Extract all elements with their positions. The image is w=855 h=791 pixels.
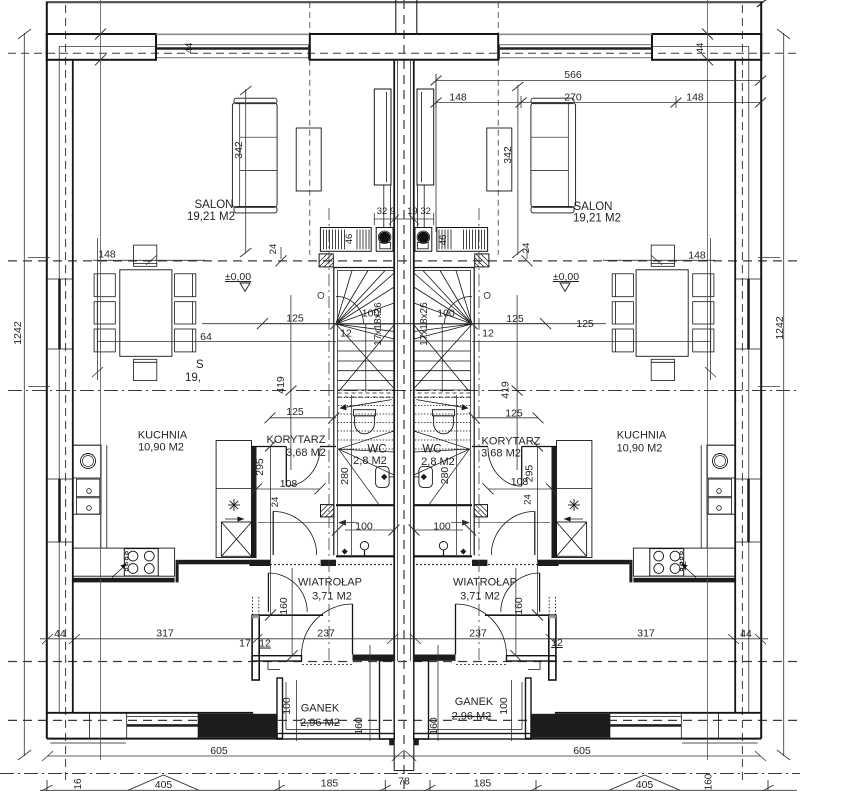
svg-text:160: 160 [353,717,365,735]
svg-text:10,90 M2: 10,90 M2 [138,442,184,454]
svg-text:2,8 M2: 2,8 M2 [353,455,387,467]
svg-text:100: 100 [355,521,373,533]
svg-text:WIATROŁAP: WIATROŁAP [453,577,517,589]
wiatrolap south wall left piece + step [252,656,301,661]
svg-text:125: 125 [286,406,304,418]
wiatrolap south wall right piece [353,655,395,661]
section axis dash-dot mid [8,390,797,392]
svg-text:2,96 M2: 2,96 M2 [300,717,340,729]
dimension: 605 [42,751,404,761]
left wall brick line [58,46,60,279]
svg-text:S: S [196,359,204,371]
24 leader near eaves [280,247,282,259]
hatched pier top [319,254,333,267]
dimension: 125/64 lines [98,295,547,470]
dimension: 295 [270,446,272,615]
wall axis vertical left [65,5,67,784]
svg-text:566: 566 [564,69,582,81]
svg-text:24: 24 [270,497,281,508]
svg-text:12: 12 [678,561,688,571]
svg-text:3,68 M2: 3,68 M2 [481,448,521,460]
party wall center [240,0,524,771]
svg-text:KUCHNIA: KUCHNIA [138,430,188,442]
top wall pier left (corner) [47,34,156,60]
corridor north wall thin [252,446,287,448]
svg-text:125: 125 [286,313,304,325]
svg-text:280: 280 [439,467,451,485]
svg-text:17: 17 [239,638,251,650]
WC south wall [336,504,394,506]
32/9 dim line [374,213,404,225]
washing machine X [221,522,251,556]
radiator [320,228,371,252]
svg-text:12: 12 [482,328,494,340]
bottom dimension decorations [40,775,797,791]
svg-text:19,21 M2: 19,21 M2 [187,211,235,223]
svg-text:148: 148 [98,249,116,261]
left wall window 1 [47,279,73,349]
svg-text:148: 148 [449,92,467,104]
svg-text:44: 44 [184,43,195,54]
svg-text:WC: WC [367,444,386,456]
svg-text:17x18x26: 17x18x26 [419,302,430,346]
chair top [134,245,157,266]
svg-text:160: 160 [428,717,440,735]
kitchen counter bottom row [73,548,175,576]
svg-text:108: 108 [511,476,529,488]
svg-text:419: 419 [500,381,512,399]
kitchen sink [73,445,101,478]
svg-text:KUCHNIA: KUCHNIA [617,430,667,442]
svg-text:±0,00: ±0,00 [553,271,579,283]
svg-text:185: 185 [321,778,339,790]
svg-text:125: 125 [506,313,524,325]
dimension: bottom chain 44/317/237 [40,634,404,644]
porch inner step lines [285,682,287,730]
svg-text:342: 342 [233,141,245,159]
svg-text:3,71 M2: 3,71 M2 [460,591,500,603]
svg-text:GANEK: GANEK [301,703,340,715]
flue block [376,228,393,252]
door corridor-wiatrolap [272,511,274,555]
svg-text:148: 148 [688,250,706,262]
dimension: 108 [257,488,321,490]
svg-text:3,71 M2: 3,71 M2 [312,591,352,603]
salon-wiatrolap wall [252,615,259,680]
verticals at segment bounds [46,780,48,791]
svg-text:160: 160 [513,597,525,615]
svg-text:237: 237 [317,628,335,640]
svg-text:605: 605 [210,745,228,757]
svg-text:17x18x26: 17x18x26 [373,302,384,346]
svg-text:100: 100 [433,521,451,533]
left wall window 2 [47,479,73,542]
svg-text:2,96 M2: 2,96 M2 [452,711,492,723]
ticks on bottom line [42,785,53,791]
porch center block [380,661,395,739]
svg-text:405: 405 [636,779,654,791]
hatched pier mid [321,505,335,517]
svg-text:237: 237 [469,628,487,640]
toilet [353,410,375,434]
porch threshold dotted [302,664,352,666]
kitchen drawers [76,479,99,497]
wall axis vertical right [741,5,743,784]
stove [124,549,158,576]
chimney above roof [395,0,397,34]
svg-text:125: 125 [576,318,594,330]
top dimension lines (right unit only) [435,74,437,232]
top window sill line thin [156,33,308,35]
svg-text:108: 108 [280,478,298,490]
fridge snowflake [228,499,240,511]
window sill line bottom-left [50,742,126,744]
svg-text:419: 419 [275,376,287,394]
drawing crop line top [46,1,763,3]
svg-text:405: 405 [155,779,173,791]
svg-text:16: 16 [73,778,84,790]
dimension: dining 148 [92,238,205,380]
svg-text:270: 270 [564,92,582,104]
dash-dot axis through stairs [328,208,330,663]
svg-text:24: 24 [521,243,532,254]
svg-text:44: 44 [695,43,706,54]
svg-text:±0,00: ±0,00 [225,271,251,283]
left wall outer face [46,2,48,739]
svg-text:100: 100 [437,308,455,320]
svg-text:160: 160 [278,597,290,615]
kitchen south wall [73,578,175,583]
stair winder fan [336,271,394,391]
shaft next to party wall [374,89,391,185]
bottom wall outer face [47,738,283,740]
hall fixtures [360,542,368,550]
svg-text:KORYTARZ: KORYTARZ [482,436,541,448]
stair block left wall [333,267,335,555]
svg-text:1242: 1242 [774,316,786,340]
chairs right column [175,274,196,352]
svg-text:3,68 M2: 3,68 M2 [286,447,326,459]
svg-text:44: 44 [54,628,66,640]
svg-text:12: 12 [259,638,271,650]
WC room steps dotted top [338,398,395,450]
svg-text:12: 12 [340,328,352,340]
svg-text:1242: 1242 [12,321,24,345]
dimension: 100 hall [345,529,394,531]
door kitchen-wiatrolap inner [267,573,269,612]
kitchen counter left column [73,445,101,514]
svg-text:185: 185 [474,778,492,790]
svg-text:32 9: 32 9 [377,206,396,217]
svg-text:125: 125 [505,408,523,420]
chairs left column [94,274,115,352]
porch bottom wall [277,734,394,740]
stair top wall [334,267,394,269]
stair straight steps [338,341,395,390]
bottom terrain dash-dot [0,773,800,775]
svg-text:KORYTARZ: KORYTARZ [267,434,326,446]
svg-text:605: 605 [573,745,591,757]
svg-text:342: 342 [502,146,514,164]
svg-text:19 32: 19 32 [407,206,431,217]
svg-text:WC: WC [422,444,441,456]
sofa [232,98,277,213]
upper storey outline dashed [8,260,797,262]
top wall pier center [310,34,405,60]
axis line A vertical [100,0,102,760]
svg-text:160: 160 [704,773,715,790]
party wall footing below porch [393,739,395,771]
top window [156,45,308,60]
bottom wall solid segment [198,714,277,738]
dimension: porch 160 [369,645,371,741]
svg-text:SALON: SALON [574,201,613,213]
dimension: 1242 left [18,29,50,760]
WC block south wall [336,555,394,557]
svg-text:78: 78 [398,776,410,788]
stair walk line arrow [340,400,392,409]
corridor line [258,521,334,523]
sofa dim lines [245,89,247,254]
bottom wall pier divisions [89,713,91,739]
porch left wall [277,678,283,739]
dining table [120,270,172,357]
door kitchen-corridor [285,447,287,487]
dimension: 280 WC [351,395,353,555]
svg-text:24: 24 [268,244,279,255]
svg-text:148: 148 [686,92,704,104]
dimension: 160 wiatrolap [291,568,293,656]
svg-text:10,90 M2: 10,90 M2 [617,443,663,455]
svg-text:19,21 M2: 19,21 M2 [573,213,621,225]
svg-text:12: 12 [551,637,563,649]
dashed pier projection [309,60,311,255]
svg-text:100: 100 [281,697,293,715]
chair bottom [134,359,157,380]
eaves dashed lower 2 [8,719,797,721]
svg-text:19,: 19, [185,372,201,384]
kitchen east wall [252,446,257,558]
party wall axis [403,0,405,791]
coffee table [296,128,321,191]
svg-text:WIATROŁAP: WIATROŁAP [298,577,362,589]
svg-text:100: 100 [498,697,510,715]
left wall inner face [72,60,74,713]
break marks under 405 labels [128,775,199,790]
svg-text:GANEK: GANEK [455,696,494,708]
stair cut dashed [338,392,395,394]
svg-text:295: 295 [254,458,266,476]
washbasin [376,466,390,487]
svg-text:46: 46 [344,234,355,245]
under-stairs slope lines [339,431,395,506]
eaves dashed lower 1 [8,661,797,663]
bottom wall inner face [47,712,253,714]
svg-text:317: 317 [637,628,655,640]
svg-text:SALON: SALON [195,199,234,211]
wall axis horizontal top [8,52,797,54]
wiatrolap north wall right piece [321,560,336,566]
svg-text:280: 280 [339,467,351,485]
svg-text:317: 317 [156,628,174,640]
terrace door glass [127,724,198,727]
svg-text:46: 46 [438,235,449,246]
dimension: porch 100 [296,680,298,741]
svg-text:2,8 M2: 2,8 M2 [421,456,455,468]
door to ganek [352,604,354,655]
svg-text:24: 24 [523,494,534,505]
tall kitchen unit / fridge [216,441,251,558]
svg-text:64: 64 [200,331,212,343]
svg-text:44: 44 [740,628,752,640]
ticks on axis line A at wall [95,29,106,40]
